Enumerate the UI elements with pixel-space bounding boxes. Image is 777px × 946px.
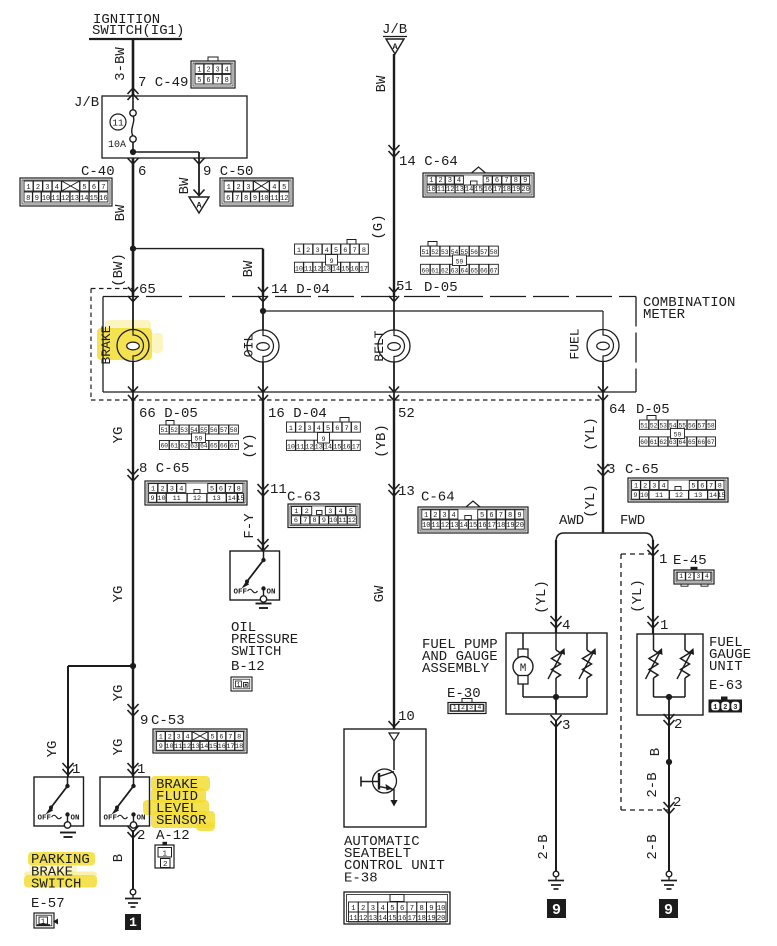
arrow through J/B bottom left bbox=[128, 158, 139, 164]
svg-text:5: 5 bbox=[334, 247, 338, 255]
svg-text:OFF: OFF bbox=[38, 815, 52, 823]
svg-text:13: 13 bbox=[191, 743, 199, 751]
svg-text:2: 2 bbox=[674, 717, 682, 733]
svg-text:12: 12 bbox=[280, 195, 288, 203]
svg-text:7: 7 bbox=[345, 425, 349, 433]
bottom bus in pump assembly bbox=[523, 696, 587, 698]
fuel pump pin 3 arrows bbox=[551, 715, 562, 721]
svg-text:3: 3 bbox=[448, 177, 452, 185]
parking brake switch E-57 bbox=[34, 777, 84, 828]
svg-text:(YL): (YL) bbox=[583, 417, 599, 451]
connector C-63 pin 11 arrows bbox=[258, 484, 269, 490]
junction pump bottom bbox=[553, 694, 559, 700]
connector D-05 pinout table (top) bbox=[428, 242, 437, 247]
connector C-65 pin 8 arrows bbox=[128, 469, 139, 475]
highlight over BRAKE lamp bbox=[97, 328, 152, 360]
svg-text:67: 67 bbox=[490, 267, 498, 274]
bottom bus in gauge unit bbox=[654, 696, 686, 698]
oil pressure switch B-12 bbox=[230, 551, 280, 602]
svg-text:60: 60 bbox=[160, 443, 168, 450]
wire pump output bbox=[555, 697, 557, 714]
ground ref box 9 (FWD) bbox=[659, 899, 678, 918]
internal link to FUEL lamp bbox=[263, 310, 603, 312]
svg-text:14: 14 bbox=[459, 522, 467, 530]
svg-text:59: 59 bbox=[195, 436, 203, 443]
connector E-45 pin 1 arrows bbox=[648, 544, 659, 550]
svg-text:11: 11 bbox=[270, 482, 287, 498]
svg-text:1: 1 bbox=[227, 184, 231, 192]
connector C-64 pinout table (top) bbox=[423, 167, 534, 197]
svg-text:17: 17 bbox=[360, 265, 368, 273]
svg-text:51: 51 bbox=[422, 249, 430, 256]
svg-text:(BW): (BW) bbox=[111, 253, 127, 287]
connector C-53 pin 9 arrows bbox=[128, 704, 139, 710]
svg-text:56: 56 bbox=[210, 427, 218, 434]
svg-text:2: 2 bbox=[461, 704, 465, 711]
svg-text:10: 10 bbox=[427, 186, 435, 194]
svg-text:(YB): (YB) bbox=[374, 424, 390, 458]
svg-text:9: 9 bbox=[140, 713, 148, 729]
svg-text:3: 3 bbox=[328, 508, 332, 516]
svg-text:15: 15 bbox=[474, 186, 482, 194]
svg-text:1: 1 bbox=[26, 184, 30, 192]
svg-text:19: 19 bbox=[506, 522, 514, 530]
svg-text:B: B bbox=[648, 748, 664, 756]
svg-text:8 C-65: 8 C-65 bbox=[139, 461, 189, 477]
svg-text:11: 11 bbox=[349, 915, 358, 923]
svg-text:7: 7 bbox=[101, 184, 105, 192]
svg-text:4: 4 bbox=[705, 573, 709, 580]
seatbelt unit pin 10 arrow bbox=[389, 721, 400, 727]
svg-text:10: 10 bbox=[157, 495, 165, 503]
svg-text:14: 14 bbox=[200, 743, 208, 751]
svg-text:16: 16 bbox=[218, 743, 226, 751]
svg-text:7: 7 bbox=[215, 77, 219, 85]
wire branch to meter pin 14 bbox=[133, 248, 263, 250]
svg-text:16: 16 bbox=[350, 265, 358, 273]
svg-text:5: 5 bbox=[691, 482, 695, 490]
svg-text:8: 8 bbox=[508, 512, 512, 520]
svg-text:61: 61 bbox=[170, 443, 178, 450]
svg-text:8: 8 bbox=[313, 517, 317, 525]
svg-text:BW: BW bbox=[113, 204, 129, 221]
svg-text:6: 6 bbox=[92, 184, 96, 192]
wire (YB)/GW from meter pin 52 bbox=[393, 400, 395, 729]
svg-text:2: 2 bbox=[298, 425, 302, 433]
svg-text:(G): (G) bbox=[371, 214, 387, 239]
svg-text:65: 65 bbox=[139, 282, 156, 298]
svg-text:3: 3 bbox=[45, 184, 49, 192]
svg-text:D-05: D-05 bbox=[424, 280, 458, 296]
wire B to ground bbox=[132, 830, 134, 889]
svg-text:2-B: 2-B bbox=[536, 834, 552, 859]
connector C-64 pinout table (bottom) bbox=[418, 501, 528, 533]
svg-text:1: 1 bbox=[429, 177, 433, 185]
svg-text:16: 16 bbox=[484, 186, 492, 194]
fuse 11 (10A) bbox=[132, 96, 134, 110]
svg-text:7: 7 bbox=[353, 247, 357, 255]
chassis ground (AWD) bbox=[553, 871, 559, 877]
svg-text:5: 5 bbox=[326, 425, 330, 433]
svg-text:9: 9 bbox=[321, 436, 325, 444]
svg-text:5: 5 bbox=[210, 733, 214, 741]
wire BW from J/B to C-64 bbox=[393, 54, 395, 297]
thermistor/low fuel sender resistor bbox=[579, 633, 596, 697]
svg-text:2: 2 bbox=[236, 184, 240, 192]
svg-text:1: 1 bbox=[197, 67, 201, 75]
svg-text:10: 10 bbox=[42, 195, 50, 203]
connector C-40 pinout table bbox=[20, 178, 112, 206]
svg-text:3: 3 bbox=[607, 462, 615, 478]
svg-text:51: 51 bbox=[160, 427, 168, 434]
entry arrows pin 51 bbox=[389, 287, 399, 293]
ground below oil pressure switch bbox=[256, 603, 272, 605]
brake lamp L1 bbox=[117, 330, 149, 362]
svg-text:6: 6 bbox=[294, 517, 298, 525]
svg-text:C-64: C-64 bbox=[421, 490, 455, 506]
wire BELT lamp to pin 52 bbox=[393, 362, 395, 400]
svg-text:6: 6 bbox=[206, 77, 210, 85]
wire gauge output bbox=[668, 697, 670, 715]
fuel pump and gauge assembly box bbox=[506, 633, 607, 714]
svg-text:56: 56 bbox=[470, 249, 478, 256]
svg-text:9: 9 bbox=[523, 177, 527, 185]
svg-text:53: 53 bbox=[180, 427, 188, 434]
svg-text:11: 11 bbox=[174, 743, 182, 751]
connector E-45 pinout table bbox=[691, 567, 698, 571]
svg-text:4: 4 bbox=[179, 485, 183, 493]
svg-text:YG: YG bbox=[111, 739, 127, 756]
svg-text:13: 13 bbox=[450, 522, 458, 530]
svg-text:2: 2 bbox=[305, 508, 309, 516]
svg-text:10: 10 bbox=[287, 443, 295, 451]
svg-text:11: 11 bbox=[437, 186, 445, 194]
svg-text:3: 3 bbox=[177, 733, 181, 741]
svg-text:52: 52 bbox=[431, 249, 439, 256]
svg-text:64: 64 bbox=[609, 402, 626, 418]
svg-text:63: 63 bbox=[190, 443, 198, 450]
svg-text:3: 3 bbox=[652, 482, 656, 490]
wire 2-B to ground (AWD) bbox=[555, 721, 557, 871]
fuel pump pin 4 arrows bbox=[551, 616, 562, 622]
wire BRAKE lamp to pin 66 bbox=[132, 361, 134, 400]
svg-text:11: 11 bbox=[296, 443, 304, 451]
svg-text:14: 14 bbox=[80, 195, 88, 203]
combination meter box bbox=[103, 296, 636, 298]
svg-text:18: 18 bbox=[497, 522, 505, 530]
svg-text:4: 4 bbox=[451, 512, 455, 520]
svg-text:62: 62 bbox=[659, 439, 667, 446]
svg-text:11: 11 bbox=[655, 492, 663, 500]
fuel gauge sender resistor (main) bbox=[548, 633, 565, 697]
svg-text:9: 9 bbox=[35, 195, 39, 203]
svg-text:13: 13 bbox=[315, 443, 323, 451]
svg-text:61: 61 bbox=[431, 267, 439, 274]
svg-text:16: 16 bbox=[342, 443, 350, 451]
svg-text:9: 9 bbox=[664, 902, 673, 919]
svg-text:6: 6 bbox=[138, 164, 146, 180]
svg-text:17: 17 bbox=[352, 443, 360, 451]
svg-text:A-12: A-12 bbox=[156, 828, 190, 844]
svg-text:60: 60 bbox=[422, 267, 430, 274]
connector C-53 pinout table bbox=[153, 729, 247, 753]
svg-text:53: 53 bbox=[659, 422, 667, 429]
svg-text:1: 1 bbox=[151, 485, 155, 493]
svg-text:4: 4 bbox=[186, 733, 190, 741]
svg-text:C-63: C-63 bbox=[287, 490, 321, 506]
svg-text:GW: GW bbox=[372, 585, 388, 602]
svg-text:17: 17 bbox=[493, 186, 501, 194]
svg-text:3: 3 bbox=[215, 67, 219, 75]
connector E-30 pinout table bbox=[448, 699, 486, 714]
FWD dashed enclosure bbox=[620, 554, 622, 810]
svg-text:A: A bbox=[196, 201, 202, 211]
svg-text:65: 65 bbox=[470, 267, 478, 274]
svg-text:15: 15 bbox=[469, 522, 477, 530]
svg-text:63: 63 bbox=[669, 439, 677, 446]
svg-text:6: 6 bbox=[219, 733, 223, 741]
svg-text:4: 4 bbox=[457, 177, 461, 185]
svg-text:(YL): (YL) bbox=[583, 484, 599, 518]
svg-text:52: 52 bbox=[170, 427, 178, 434]
junction YG split bbox=[130, 663, 136, 669]
connector E-38 pinout table bbox=[344, 892, 450, 924]
svg-text:UNIT: UNIT bbox=[709, 659, 743, 675]
svg-text:66: 66 bbox=[220, 443, 228, 450]
svg-text:6: 6 bbox=[343, 247, 347, 255]
svg-text:19: 19 bbox=[512, 186, 520, 194]
svg-text:10: 10 bbox=[329, 517, 337, 525]
svg-text:4: 4 bbox=[325, 247, 329, 255]
svg-text:5: 5 bbox=[82, 184, 86, 192]
svg-text:12: 12 bbox=[675, 492, 683, 500]
connector B-12 icon bbox=[231, 677, 252, 691]
transistor Q1 bbox=[361, 769, 398, 807]
wire (Y) from meter pin 16 bbox=[262, 400, 264, 551]
svg-text:3: 3 bbox=[307, 425, 311, 433]
svg-text:J/B: J/B bbox=[74, 95, 99, 111]
svg-text:9: 9 bbox=[329, 258, 333, 266]
svg-text:4: 4 bbox=[225, 67, 229, 75]
svg-text:12: 12 bbox=[446, 186, 454, 194]
svg-text:63: 63 bbox=[451, 267, 459, 274]
svg-text:16 D-04: 16 D-04 bbox=[268, 406, 327, 422]
svg-text:7: 7 bbox=[709, 482, 713, 490]
svg-text:FUEL: FUEL bbox=[568, 328, 583, 359]
svg-text:17: 17 bbox=[488, 522, 496, 530]
connector C-50 pinout table bbox=[220, 178, 293, 206]
svg-text:(YL): (YL) bbox=[534, 580, 550, 614]
svg-text:BELT: BELT bbox=[372, 330, 387, 361]
svg-text:19: 19 bbox=[427, 915, 436, 923]
svg-text:9: 9 bbox=[159, 743, 163, 751]
svg-text:C-65: C-65 bbox=[625, 462, 659, 478]
body connector arrows (FWD) bbox=[664, 802, 675, 808]
connector C-64 pin 14 arrows bbox=[389, 145, 400, 151]
arrow through J/B bottom right bbox=[194, 158, 205, 164]
svg-text:2-B: 2-B bbox=[645, 772, 661, 797]
svg-text:15: 15 bbox=[236, 495, 244, 503]
svg-text:11: 11 bbox=[431, 522, 439, 530]
svg-text:FWD: FWD bbox=[620, 513, 645, 529]
svg-text:57: 57 bbox=[220, 427, 228, 434]
svg-text:14: 14 bbox=[332, 265, 340, 273]
svg-text:14 D-04: 14 D-04 bbox=[271, 282, 330, 298]
svg-text:8: 8 bbox=[244, 195, 248, 203]
svg-text:8: 8 bbox=[237, 733, 241, 741]
svg-text:12: 12 bbox=[183, 743, 191, 751]
svg-text:12: 12 bbox=[313, 265, 321, 273]
exit arrows pin 16 bbox=[258, 387, 268, 393]
svg-text:17: 17 bbox=[408, 915, 417, 923]
junction BW branch bbox=[130, 246, 136, 252]
svg-text:15: 15 bbox=[333, 443, 341, 451]
svg-text:65: 65 bbox=[210, 443, 218, 450]
wire OIL lamp to pin 16 bbox=[262, 362, 264, 400]
svg-text:7: 7 bbox=[499, 512, 503, 520]
svg-text:20: 20 bbox=[516, 522, 524, 530]
svg-text:61: 61 bbox=[650, 439, 658, 446]
svg-text:59: 59 bbox=[456, 259, 464, 266]
svg-text:F-Y: F-Y bbox=[242, 513, 258, 539]
svg-text:SENSOR: SENSOR bbox=[156, 813, 207, 829]
svg-text:53: 53 bbox=[441, 249, 449, 256]
svg-text:1: 1 bbox=[289, 425, 293, 433]
svg-text:15: 15 bbox=[209, 743, 217, 751]
svg-text:6: 6 bbox=[226, 195, 230, 203]
svg-text:66: 66 bbox=[698, 439, 706, 446]
automatic seatbelt control unit box bbox=[344, 729, 426, 827]
svg-text:E-63: E-63 bbox=[709, 678, 743, 694]
svg-text:3: 3 bbox=[696, 573, 700, 580]
svg-text:65: 65 bbox=[688, 439, 696, 446]
svg-text:11: 11 bbox=[112, 118, 124, 129]
svg-text:5: 5 bbox=[282, 184, 286, 192]
svg-text:6: 6 bbox=[335, 425, 339, 433]
svg-text:4: 4 bbox=[317, 425, 321, 433]
svg-text:1: 1 bbox=[237, 682, 241, 689]
svg-text:1: 1 bbox=[424, 512, 428, 520]
svg-text:8: 8 bbox=[718, 482, 722, 490]
svg-text:(YL): (YL) bbox=[630, 579, 646, 613]
svg-text:3: 3 bbox=[442, 512, 446, 520]
svg-text:E-38: E-38 bbox=[344, 871, 378, 887]
fuel pump motor M bbox=[513, 633, 533, 697]
svg-text:14: 14 bbox=[228, 495, 236, 503]
fuel gauge pin 2 arrows bbox=[664, 714, 675, 720]
svg-text:13: 13 bbox=[456, 186, 464, 194]
svg-text:2: 2 bbox=[168, 733, 172, 741]
svg-text:2: 2 bbox=[163, 861, 168, 869]
wire YG from meter pin 66 bbox=[132, 400, 134, 777]
ground ref box 1 bbox=[125, 914, 141, 930]
svg-text:58: 58 bbox=[707, 422, 715, 429]
svg-text:12: 12 bbox=[348, 517, 356, 525]
svg-text:5: 5 bbox=[486, 177, 490, 185]
svg-text:12: 12 bbox=[193, 495, 201, 503]
svg-text:4: 4 bbox=[55, 184, 59, 192]
svg-text:3-BW: 3-BW bbox=[113, 47, 129, 81]
svg-text:1: 1 bbox=[129, 915, 137, 930]
svg-text:10: 10 bbox=[398, 709, 415, 725]
connector C-49 pin 7 arrows bbox=[128, 94, 139, 100]
ground below parking brake switch bbox=[60, 832, 76, 834]
svg-text:2-B: 2-B bbox=[645, 834, 661, 859]
connector A-12 icon bbox=[155, 842, 174, 869]
svg-text:3: 3 bbox=[315, 247, 319, 255]
svg-text:17: 17 bbox=[226, 743, 234, 751]
svg-text:1: 1 bbox=[297, 247, 301, 255]
svg-text:66: 66 bbox=[480, 267, 488, 274]
svg-text:1: 1 bbox=[453, 704, 457, 711]
svg-text:9: 9 bbox=[633, 492, 637, 500]
svg-text:SWITCH: SWITCH bbox=[31, 877, 81, 893]
svg-text:ASSEMBLY: ASSEMBLY bbox=[422, 661, 490, 677]
svg-text:20: 20 bbox=[437, 915, 446, 923]
belt lamp L3 bbox=[378, 330, 410, 362]
connector C-64 pin 13 arrows bbox=[389, 484, 400, 490]
svg-text:3: 3 bbox=[246, 184, 250, 192]
svg-text:66 D-05: 66 D-05 bbox=[139, 406, 198, 422]
svg-text:SWITCH: SWITCH bbox=[231, 644, 281, 660]
svg-text:18: 18 bbox=[417, 915, 426, 923]
junction gauge bottom bbox=[666, 694, 672, 700]
svg-text:E-57: E-57 bbox=[31, 896, 65, 912]
svg-text:13: 13 bbox=[694, 492, 702, 500]
svg-text:58: 58 bbox=[230, 427, 238, 434]
svg-text:7: 7 bbox=[303, 517, 307, 525]
svg-text:7: 7 bbox=[235, 195, 239, 203]
svg-text:ON: ON bbox=[267, 589, 276, 597]
svg-text:56: 56 bbox=[688, 422, 696, 429]
svg-text:9: 9 bbox=[517, 512, 521, 520]
svg-text:64: 64 bbox=[461, 267, 469, 274]
svg-text:57: 57 bbox=[698, 422, 706, 429]
svg-text:2: 2 bbox=[36, 184, 40, 192]
exit arrows pin 52 bbox=[389, 387, 399, 393]
svg-text:14: 14 bbox=[324, 443, 332, 451]
svg-text:62: 62 bbox=[441, 267, 449, 274]
oil switch pin arrows bbox=[258, 539, 269, 545]
connector C-63 pinout table bbox=[288, 504, 360, 528]
exit arrows pin 64 bbox=[598, 387, 608, 393]
svg-text:15: 15 bbox=[90, 195, 98, 203]
splice on FWD ground wire bbox=[666, 759, 672, 765]
svg-text:14 C-64: 14 C-64 bbox=[399, 154, 458, 170]
svg-text:10: 10 bbox=[640, 492, 648, 500]
svg-text:3: 3 bbox=[170, 485, 174, 493]
connector C-65 pin 3 arrows bbox=[598, 464, 609, 470]
wire to OIL lamp bbox=[262, 297, 264, 331]
brake fluid level sensor A-12 bbox=[100, 777, 150, 828]
svg-text:1: 1 bbox=[159, 733, 163, 741]
svg-text:8: 8 bbox=[26, 195, 30, 203]
svg-text:1: 1 bbox=[634, 482, 638, 490]
svg-text:4: 4 bbox=[661, 482, 665, 490]
svg-text:10A: 10A bbox=[108, 140, 126, 151]
connector E-63 icon bbox=[709, 697, 743, 713]
wire B to ground (FWD) bbox=[668, 715, 670, 871]
svg-text:YG: YG bbox=[111, 685, 127, 702]
internal arrow bbox=[389, 733, 399, 741]
svg-text:4: 4 bbox=[477, 704, 481, 711]
svg-text:10: 10 bbox=[422, 522, 430, 530]
svg-text:2: 2 bbox=[643, 482, 647, 490]
svg-text:OIL: OIL bbox=[242, 334, 257, 357]
wire FUEL lamp to pin 64 bbox=[602, 361, 604, 400]
svg-text:E-45: E-45 bbox=[673, 553, 707, 569]
svg-text:12: 12 bbox=[441, 522, 449, 530]
